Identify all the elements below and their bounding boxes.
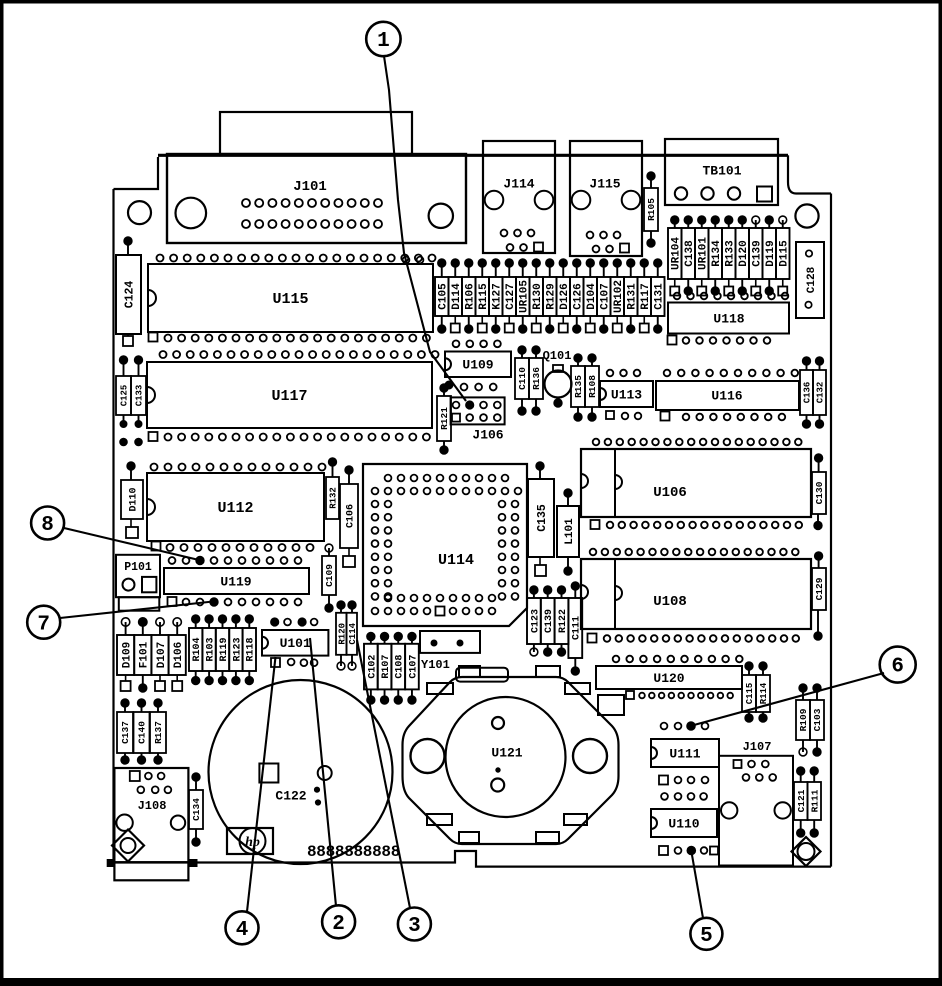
capacitor C111 (568, 582, 582, 675)
pads below diode group (121, 675, 183, 692)
svg-text:C124: C124 (123, 281, 136, 309)
pads below TB101 row (670, 279, 787, 296)
IC U112 (147, 473, 324, 541)
svg-text:D109: D109 (121, 642, 133, 668)
IC U114 pin grid array socket (363, 464, 527, 626)
IC U118 (668, 303, 789, 334)
svg-text:C132: C132 (816, 382, 826, 404)
svg-text:C102: C102 (367, 655, 378, 679)
capacitor C106 (340, 466, 358, 567)
resistor R120 (336, 601, 347, 670)
pad row callout-6 target (661, 722, 709, 730)
svg-text:8888888888: 8888888888 (307, 843, 400, 861)
IC U120 (596, 666, 742, 689)
IC U117 (147, 362, 432, 428)
IC U108 with socket (581, 559, 811, 629)
callout 2 (322, 905, 355, 938)
small pad rect below U120 left (598, 695, 624, 715)
capacitor C130 (812, 454, 826, 529)
leader line for callout 8 (64, 528, 199, 560)
capacitor C128 (796, 242, 824, 318)
capacitor C136 (800, 357, 813, 428)
pads above U101 (271, 618, 318, 625)
capacitor C140 (134, 699, 150, 764)
svg-text:R122: R122 (558, 609, 569, 633)
pads above C102 group (367, 633, 416, 644)
IC U113 (600, 370, 653, 407)
transistor U121 mounting holes (411, 739, 608, 773)
board outline top-right notch (788, 155, 831, 193)
IC U111 (651, 739, 719, 767)
IC U109 (445, 352, 511, 378)
svg-text:C125: C125 (120, 385, 130, 407)
mounting hole top-right (795, 204, 818, 227)
svg-text:7: 7 (37, 613, 50, 636)
capacitor C137 (117, 699, 133, 764)
leader line for callout 7 (60, 602, 213, 619)
diode group D109 F101 D107 D106 (117, 635, 186, 675)
capacitor C124 (116, 237, 141, 346)
resistor R137 (150, 699, 166, 764)
pin row above U118 (674, 293, 789, 300)
svg-text:C134: C134 (191, 798, 202, 821)
capacitor C125 (116, 356, 131, 445)
svg-text:C133: C133 (135, 385, 145, 407)
resistor R105 (644, 172, 658, 247)
svg-text:R109: R109 (798, 708, 809, 731)
capacitor C135 (528, 462, 554, 576)
pin row below U115 (149, 333, 430, 342)
resistor R121 near J106 (437, 384, 451, 454)
polarity diamond J108 (112, 830, 144, 862)
IC U110 (651, 809, 717, 837)
pin row above U108 (590, 549, 799, 556)
pin row above U117 (160, 351, 439, 358)
pin rows between U111 and U110 (659, 776, 708, 800)
hp logo (227, 828, 273, 854)
svg-text:D107: D107 (156, 642, 168, 668)
svg-text:C108: C108 (395, 655, 406, 679)
svg-text:C115: C115 (745, 683, 755, 705)
IC U115 (148, 264, 433, 332)
svg-text:L101: L101 (564, 518, 576, 545)
border frame top (0, 0, 942, 4)
capacitor group C123 C139 R122 (527, 598, 569, 644)
callout 3 (398, 908, 431, 941)
svg-text:R137: R137 (153, 721, 164, 744)
IC U119 (164, 568, 309, 594)
svg-text:C106: C106 (345, 504, 356, 528)
svg-text:U114: U114 (438, 552, 474, 569)
inductor L101 (557, 489, 579, 575)
svg-text:R114: R114 (759, 682, 769, 704)
svg-text:U120: U120 (653, 671, 684, 686)
svg-text:J114: J114 (503, 176, 534, 191)
diode D110 (121, 462, 143, 538)
pin row below U119 with callout-7 target pad (168, 597, 302, 606)
transistor U121 body circle (446, 697, 566, 817)
svg-text:2: 2 (332, 913, 345, 936)
callout 8 (31, 507, 64, 540)
pads above C123 group (530, 586, 565, 598)
leader line for callout 4 (247, 657, 276, 912)
svg-text:D110: D110 (128, 487, 139, 511)
svg-text:R135: R135 (573, 375, 584, 398)
capacitor C134 (189, 773, 203, 846)
capacitor C133 (131, 356, 146, 445)
svg-text:C110: C110 (517, 367, 528, 390)
fuse P101 (116, 555, 160, 611)
callout 5 (690, 918, 722, 950)
callout 7 (27, 606, 60, 639)
pin row above U116 (664, 370, 798, 377)
callout 6 (880, 647, 916, 683)
board outline top-left corner (114, 157, 159, 189)
connector J114 (483, 141, 555, 253)
svg-text:R132: R132 (329, 487, 339, 509)
pin row above U115 (157, 255, 436, 262)
svg-text:C128: C128 (806, 266, 818, 293)
pin row below U110 with callout-5 target pad (659, 846, 718, 855)
svg-text:U119: U119 (220, 574, 251, 589)
connector J101 (167, 154, 466, 243)
border frame bottom bar (0, 978, 942, 986)
component row below J101/J114 (C105 D114 R106 R115 K127 C127 UR105 R130 R129 D126 C126 D104 C107 UR102 R131 R117 C131) (435, 277, 665, 316)
pin row below U109 (445, 381, 496, 390)
svg-text:U121: U121 (491, 745, 522, 760)
transistor Q101 (543, 349, 572, 407)
svg-text:U115: U115 (272, 291, 308, 308)
svg-text:TB101: TB101 (702, 163, 741, 178)
leader line for callout 5 (691, 851, 703, 918)
pin row above U120 (613, 656, 743, 663)
svg-text:U113: U113 (611, 387, 642, 402)
svg-text:C107: C107 (408, 655, 419, 679)
capacitor C132 (813, 357, 826, 428)
svg-text:J108: J108 (138, 799, 167, 813)
svg-text:C103: C103 (812, 708, 823, 731)
pin row below U116 (661, 412, 786, 421)
svg-text:J107: J107 (743, 740, 772, 754)
pin row below U118 (668, 336, 771, 345)
svg-text:C135: C135 (536, 504, 549, 532)
svg-text:8: 8 (41, 514, 54, 537)
svg-text:6: 6 (891, 656, 904, 679)
capacitor C110 (515, 346, 529, 415)
pad pair left of J114 (403, 257, 424, 264)
resistor R109 (796, 684, 810, 756)
board outline right edge (830, 194, 832, 867)
capacitor C109 (322, 544, 336, 612)
border frame right (939, 0, 942, 986)
svg-text:hp: hp (245, 835, 260, 850)
svg-text:R123: R123 (232, 637, 243, 661)
pin row below U113 (606, 411, 641, 419)
svg-text:R121: R121 (439, 407, 450, 430)
connector J101 shell (220, 112, 412, 154)
svg-text:5: 5 (700, 925, 713, 948)
resistor R135 (571, 354, 585, 421)
terminal block TB101 (665, 139, 778, 205)
capacitor C103 (810, 684, 824, 756)
pads below C102 group (367, 689, 416, 703)
svg-text:U116: U116 (711, 388, 742, 403)
polarity diamond bottom-right (792, 837, 821, 866)
svg-text:4: 4 (236, 919, 249, 942)
pads below U101 (288, 659, 318, 667)
connector J106 (451, 397, 505, 442)
pin row above U119 with callout-8 target pad (169, 557, 302, 565)
svg-text:Q101: Q101 (543, 349, 572, 363)
board outline left edge (112, 189, 114, 863)
leader line for callout 3 (357, 640, 410, 908)
pin row above U109 (453, 340, 501, 347)
capacitor C122 (large electrolytic) (209, 680, 393, 864)
IC U116 (656, 381, 799, 410)
svg-text:U109: U109 (462, 358, 493, 373)
pin row below U108 (588, 634, 800, 643)
svg-text:C109: C109 (324, 564, 335, 587)
transistor U121 pins (491, 717, 504, 792)
svg-text:C121: C121 (796, 789, 807, 812)
pin row above U106 (593, 439, 802, 446)
svg-text:J101: J101 (293, 179, 327, 195)
IC U101 (262, 630, 328, 667)
svg-text:P101: P101 (124, 561, 152, 574)
resistor R136 (529, 346, 543, 415)
svg-text:C137: C137 (120, 721, 131, 744)
pads above diode group (121, 618, 181, 635)
callout 4 (226, 911, 259, 944)
svg-text:C122: C122 (275, 788, 306, 803)
leader line for callout 6 (694, 673, 884, 725)
transistor U121 (TO-3) flange (403, 677, 619, 844)
capacitor C129 (812, 552, 826, 640)
svg-text:D115: D115 (778, 240, 790, 267)
svg-text:C123: C123 (530, 609, 541, 633)
svg-text:R108: R108 (587, 375, 598, 398)
board edge pad left (107, 859, 115, 867)
pin row below U120 (626, 691, 733, 699)
svg-text:R107: R107 (381, 655, 392, 679)
board edge pad right (190, 859, 198, 867)
capacitor group C102 R107 C108 C107 (364, 644, 419, 690)
svg-text:U106: U106 (653, 485, 687, 501)
svg-text:Y101: Y101 (421, 658, 450, 672)
pads below C123 group (530, 644, 565, 656)
svg-text:C131: C131 (653, 283, 665, 310)
leader line for callout 1 (384, 56, 466, 401)
svg-text:R111: R111 (809, 789, 820, 812)
svg-text:1: 1 (377, 30, 390, 53)
connector J115 (570, 141, 642, 256)
board outline bottom edge (114, 851, 832, 867)
capacitor C121 (794, 767, 808, 837)
svg-text:D106: D106 (173, 642, 185, 668)
board outline top edge (158, 154, 788, 157)
pads below resistor group (192, 671, 253, 684)
mounting hole top-left (128, 201, 151, 224)
svg-text:U108: U108 (653, 594, 687, 610)
svg-text:U118: U118 (713, 311, 744, 326)
svg-text:U110: U110 (668, 816, 699, 831)
resistor R132 (326, 458, 339, 519)
svg-text:U111: U111 (669, 746, 700, 761)
svg-text:U112: U112 (217, 500, 253, 517)
pads above middle component row (438, 259, 662, 277)
svg-text:C140: C140 (137, 721, 148, 744)
heatsink tabs around U121 (427, 666, 590, 843)
pads below middle component row (438, 316, 662, 333)
svg-text:C136: C136 (803, 382, 813, 404)
svg-text:J106: J106 (472, 427, 503, 442)
svg-text:J115: J115 (589, 176, 620, 191)
svg-text:U101: U101 (280, 636, 311, 651)
border frame left (0, 0, 4, 986)
connector J107 (719, 740, 793, 865)
svg-text:R105: R105 (646, 198, 657, 221)
capacitor C114 (347, 601, 358, 670)
svg-text:C139: C139 (544, 609, 555, 633)
resistor group R104 R103 R119 R123 R118 (189, 628, 257, 671)
svg-text:R118: R118 (246, 637, 257, 661)
pin row below U106 (591, 520, 803, 529)
svg-text:C130: C130 (814, 481, 825, 504)
crystal Y101 (420, 631, 508, 682)
svg-text:F101: F101 (139, 641, 151, 668)
pads above TB101 row (671, 216, 787, 228)
resistor R114 (756, 662, 770, 722)
resistor R111 (808, 767, 822, 837)
svg-text:U117: U117 (271, 388, 307, 405)
connector J108 (114, 768, 188, 880)
pads above resistor group (192, 615, 253, 628)
pin row above U112 (151, 464, 326, 471)
capacitor C115 (742, 662, 756, 722)
resistor R108 (585, 354, 599, 421)
serial number 8888888888 (307, 843, 400, 861)
diode/resistor row below TB101 (UR104 C138 UR101 R134 R133 D120 C139 D119 D115) (668, 228, 790, 279)
svg-text:C129: C129 (814, 577, 825, 600)
pin row below U112 (152, 542, 314, 552)
IC U106 with socket (581, 449, 811, 517)
callout 1 (366, 22, 400, 56)
pin row below U117 (149, 432, 430, 441)
svg-text:3: 3 (408, 915, 421, 938)
svg-text:R136: R136 (531, 367, 542, 390)
leader line for callout 2 (310, 638, 336, 906)
